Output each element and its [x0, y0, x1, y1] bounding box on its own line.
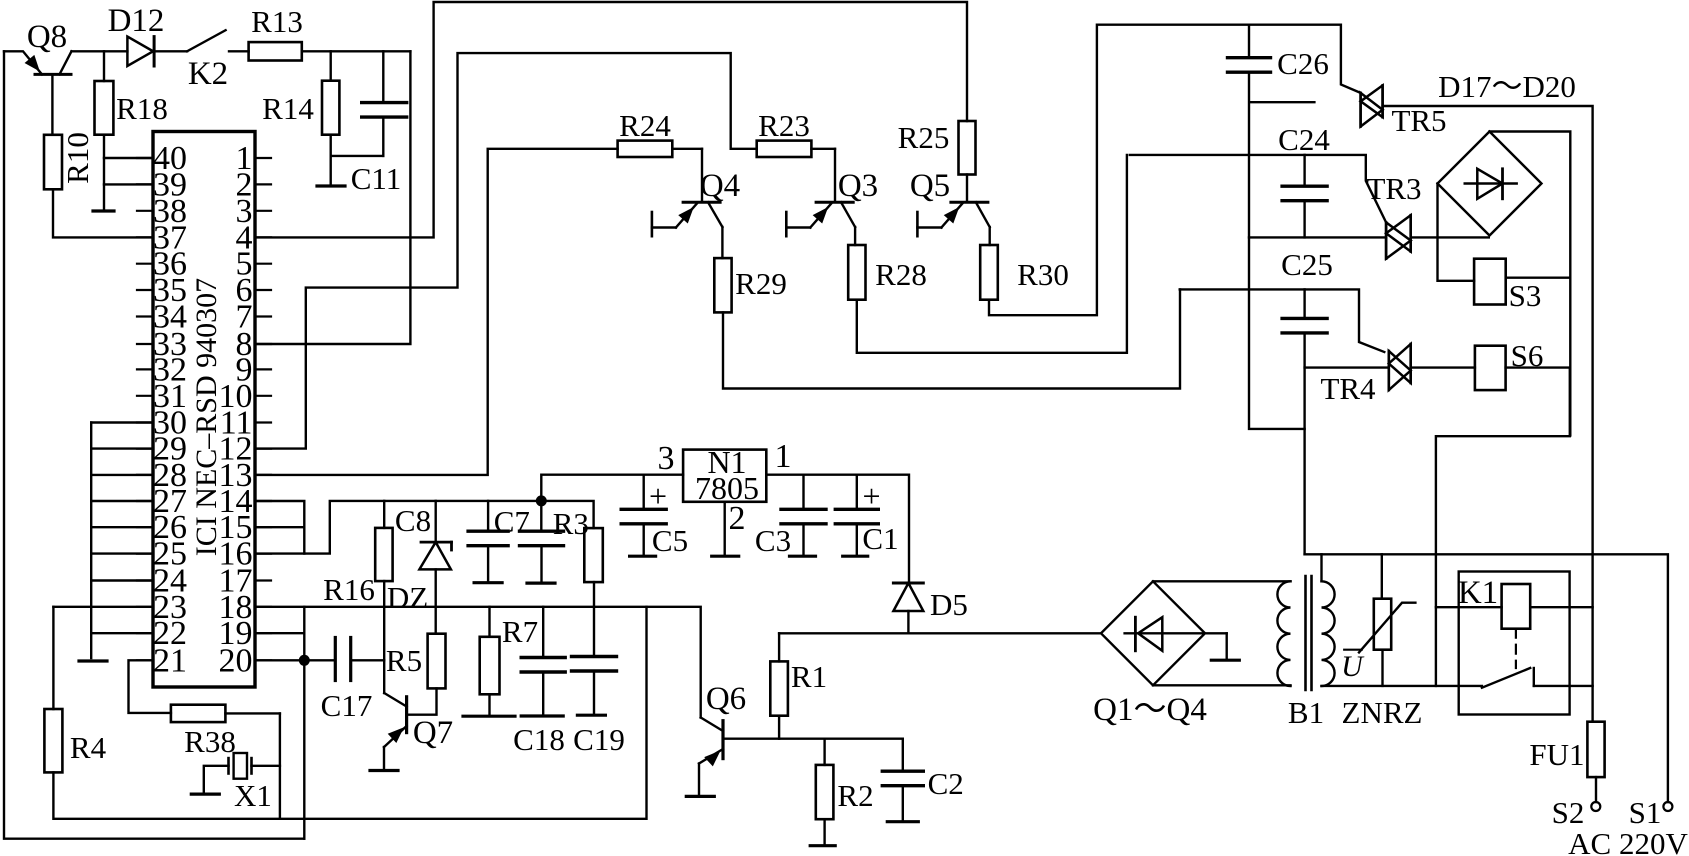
wire R5 to Q7 base: [407, 688, 437, 714]
svg-text:R5: R5: [386, 643, 422, 678]
wire pin 21 to R38: [129, 660, 171, 713]
svg-text:R1: R1: [791, 659, 827, 694]
wire secondary top rail to S1: [1305, 554, 1668, 802]
label D17~D20: [1438, 69, 1576, 104]
resistor R16: [375, 528, 392, 581]
wire Q3 emitter to R28: [854, 227, 856, 245]
svg-text:Q4: Q4: [700, 168, 740, 204]
wire C7a bottom lead: [487, 546, 489, 583]
wire C18 top lead: [542, 607, 544, 658]
wire C19 bottom lead: [593, 671, 595, 715]
resistor R23: [757, 141, 812, 157]
node junction pin 20: [299, 655, 310, 666]
wire C24 row to TR3 gate: [1130, 155, 1386, 223]
svg-text:X1: X1: [234, 778, 272, 813]
label C26: [1277, 46, 1329, 81]
label C5: [652, 523, 688, 558]
ground below C7b: [527, 581, 555, 584]
svg-text:S2: S2: [1552, 795, 1585, 830]
wire Q6 base row: [723, 738, 903, 740]
label Q8: [27, 19, 67, 55]
label pin 3 of N1: [658, 440, 675, 477]
wire C26 top lead: [1248, 25, 1250, 58]
wire K2 to R13: [229, 50, 249, 52]
svg-text:C19: C19: [573, 722, 625, 757]
wire C25 top lead: [1303, 289, 1305, 318]
transistor Q5: [917, 175, 989, 237]
label Q4: [700, 168, 740, 204]
svg-text:D5: D5: [930, 587, 968, 622]
svg-text:R24: R24: [619, 108, 671, 143]
label R14: [262, 91, 314, 126]
wire R16 top lead: [383, 501, 385, 528]
wire pin 13 to R24: [255, 149, 618, 475]
wire pin 23 to R4: [53, 607, 153, 709]
label R16: [323, 572, 375, 607]
ground at Q1~Q4 output: [1211, 633, 1239, 660]
label R28: [875, 257, 927, 292]
capacitor C7b: [520, 531, 564, 546]
svg-text:7805: 7805: [695, 470, 759, 506]
svg-text:Q1～Q4: Q1～Q4: [1093, 692, 1207, 728]
relay K1 coil: [1502, 584, 1531, 629]
resistor R30: [980, 245, 998, 300]
resistor R24: [618, 141, 673, 157]
wire X1 left to ground: [204, 766, 229, 794]
wire C5 top lead: [643, 475, 645, 510]
diode D12: [127, 37, 154, 66]
svg-text:R23: R23: [758, 108, 810, 143]
capacitor C18: [521, 658, 565, 673]
label C11: [351, 161, 402, 196]
svg-text:S1: S1: [1629, 795, 1662, 830]
svg-text:Q5: Q5: [910, 168, 950, 204]
fuse FU1: [1587, 722, 1604, 777]
switch blade of K1: [1482, 668, 1534, 688]
svg-text:Q7: Q7: [413, 715, 453, 751]
svg-text:R4: R4: [70, 730, 107, 765]
zener diode DZ: [419, 542, 451, 569]
wire R1 bottom lead: [778, 716, 780, 739]
bridge rectifier Q1~Q4: [1101, 581, 1227, 685]
wire TR3 anode to bridge: [1411, 236, 1489, 238]
svg-text:B1: B1: [1288, 695, 1324, 730]
wire Q8 base to R10: [51, 74, 53, 134]
svg-text:R13: R13: [251, 4, 303, 39]
wire K1 coil right: [1530, 606, 1592, 608]
label C17: [321, 688, 373, 723]
ground below R18: [93, 209, 114, 212]
capacitor C11: [362, 103, 407, 118]
wire R13 to pin8 corner: [302, 50, 411, 52]
ground below C1: [843, 555, 868, 558]
label C2: [928, 766, 964, 801]
wire K1 contact to FU1 rail: [1534, 685, 1593, 687]
capacitor C19: [572, 657, 617, 672]
capacitor C1: [835, 509, 878, 524]
label R3: [553, 506, 589, 541]
svg-text:R7: R7: [502, 614, 538, 649]
wire Q8 collector to D12: [72, 50, 128, 52]
label TR5: [1391, 103, 1446, 138]
label C7: [494, 504, 530, 539]
svg-text:K2: K2: [188, 56, 228, 92]
varistor ZNRZ top lead: [1381, 554, 1383, 598]
capacitor C3: [781, 509, 826, 524]
svg-text:ICI NEC–RSD 940307: ICI NEC–RSD 940307: [190, 278, 223, 556]
resistor R28: [848, 245, 865, 300]
label Q3: [838, 168, 878, 204]
wire ZNRZ bottom lead: [1381, 650, 1383, 686]
transistor Q6: [699, 718, 723, 766]
label DZ: [387, 580, 428, 615]
wire C5 bottom lead: [643, 524, 645, 556]
ground below C7a: [474, 581, 502, 584]
label R5: [386, 643, 422, 678]
label R7: [502, 614, 538, 649]
svg-text:21: 21: [153, 642, 187, 679]
label C25: [1281, 247, 1333, 282]
svg-text:DZ: DZ: [387, 580, 428, 615]
wire C7b top lead: [540, 501, 542, 531]
wire Q6 emitter to ground: [698, 764, 700, 797]
svg-text:FU1: FU1: [1529, 737, 1584, 772]
ground below C18: [521, 714, 563, 717]
svg-text:C26: C26: [1277, 46, 1329, 81]
wire IC pin 8 net: [255, 51, 410, 344]
transformer B1: [1277, 576, 1334, 690]
label C19: [573, 722, 625, 757]
label R10: [60, 132, 95, 184]
label R30: [1017, 257, 1069, 292]
capacitor C7a: [468, 531, 508, 546]
svg-text:R38: R38: [184, 724, 236, 759]
wire R4 bottom rail to pin18 net: [53, 607, 646, 819]
resistor R7: [480, 637, 500, 695]
wire C3 bottom lead: [802, 524, 804, 556]
wire R14 top lead: [330, 51, 332, 80]
IC U1 body NEC-RSD 940307: [153, 132, 255, 688]
wire pin 16 to mid bus: [255, 501, 594, 554]
label R18: [116, 91, 168, 126]
svg-text:R29: R29: [735, 266, 787, 301]
ground of left bus: [79, 659, 107, 662]
label C18: [513, 722, 565, 757]
svg-text:S3: S3: [1509, 278, 1542, 313]
label pin 1 of N1: [775, 438, 792, 475]
wire C24 top lead: [1303, 155, 1305, 186]
triac TR4: [1389, 344, 1411, 390]
ground below C2: [887, 820, 918, 823]
ground below X1: [191, 792, 219, 795]
wire TR5 anode rail to FU1: [1383, 106, 1593, 722]
svg-text:+: +: [862, 478, 880, 514]
wire C3 top lead: [802, 475, 804, 510]
wire left rail and bottom rail (Q8 emitter net): [4, 51, 304, 838]
wire R23 left lead: [731, 148, 757, 150]
wire R2 bottom lead: [823, 819, 825, 846]
capacitor C2: [882, 771, 923, 786]
wire C24 bottom lead: [1303, 201, 1305, 238]
label R38: [184, 724, 236, 759]
wire R14 bottom to ground: [331, 135, 384, 186]
label C24: [1278, 122, 1330, 157]
wire K1 coil left: [1436, 606, 1502, 608]
crystal X1: [229, 753, 252, 779]
svg-text:C24: C24: [1278, 122, 1330, 157]
wire S3 right lead: [1506, 277, 1571, 279]
wire Q8 emitter lead: [4, 51, 42, 74]
svg-text:C8: C8: [395, 503, 431, 538]
label Q1~Q4: [1093, 692, 1207, 728]
wire R7 bottom lead: [488, 694, 490, 716]
wire Q1-Q4 bridge top to B1 primary: [1153, 580, 1291, 582]
svg-text:C1: C1: [862, 521, 898, 556]
wire C11 bottom lead: [382, 117, 384, 156]
svg-text:Q6: Q6: [706, 681, 746, 717]
ground below R14: [317, 184, 345, 187]
resistor R4: [44, 709, 62, 772]
wire stub right of C26: [1251, 101, 1315, 103]
wire pins 14-15 jumper: [255, 501, 304, 554]
wire pin 4 to top rail to R25: [255, 2, 967, 237]
svg-text:U: U: [1341, 650, 1365, 683]
svg-text:R28: R28: [875, 257, 927, 292]
wire R18 top lead: [103, 51, 105, 81]
svg-text:R25: R25: [898, 120, 950, 155]
wire X1 right lead: [252, 765, 280, 767]
switch K2: [187, 30, 226, 51]
terminal S2: [1591, 802, 1600, 811]
wire Q7 emitter to ground: [383, 747, 385, 771]
svg-text:R16: R16: [323, 572, 375, 607]
ground below C19: [577, 714, 605, 717]
svg-text:R30: R30: [1017, 257, 1069, 292]
resistor R5: [428, 634, 446, 689]
ground below C5: [630, 555, 656, 558]
label Q7: [413, 715, 453, 751]
transistor Q4: [652, 149, 723, 236]
wire C7a top lead: [487, 501, 489, 531]
svg-text:TR4: TR4: [1320, 371, 1376, 406]
label ZNRZ: [1342, 695, 1423, 730]
wire pins 18-19-20 vertical: [303, 607, 305, 839]
wire secondary bottom rail: [1322, 685, 1482, 687]
label K1: [1458, 575, 1498, 611]
wire pin 12 to R23: [255, 53, 731, 449]
switch S3: [1474, 259, 1506, 305]
wire TR3 cathode row: [1249, 236, 1386, 238]
wire C18 bottom lead: [542, 672, 544, 716]
wire N1 pin2 to ground: [724, 502, 726, 556]
svg-text:R2: R2: [837, 778, 873, 813]
label AC 220V: [1568, 826, 1688, 856]
resistor R38: [171, 705, 226, 722]
dashed link K1 coil to contact: [1515, 629, 1517, 668]
svg-text:R10: R10: [60, 132, 95, 184]
label plus C5: [649, 478, 667, 514]
wire B1 secondary top: [1320, 554, 1322, 581]
wire R10 to IC pin 37: [53, 189, 153, 237]
wire C26 bottom / TR3 net: [1249, 72, 1305, 429]
label S3: [1509, 278, 1542, 313]
triac TR5: [1361, 85, 1383, 126]
label R1: [791, 659, 827, 694]
diode D5: [893, 583, 923, 611]
wire C2 top lead: [902, 739, 904, 772]
svg-text:2: 2: [729, 500, 746, 537]
svg-text:K1: K1: [1458, 575, 1498, 611]
svg-text:C3: C3: [755, 523, 791, 558]
label U of ZNRZ: [1341, 650, 1365, 683]
label B1: [1288, 695, 1324, 730]
ground below R7: [463, 715, 515, 718]
wire S6 to bottom rail: [1436, 368, 1570, 686]
wire R29 bottom to C25 row: [723, 289, 1180, 388]
wire R1 top lead: [778, 633, 780, 661]
label S2: [1552, 795, 1585, 830]
label S1: [1629, 795, 1662, 830]
svg-text:1: 1: [775, 438, 792, 475]
capacitor C24: [1282, 186, 1327, 201]
svg-text:C25: C25: [1281, 247, 1333, 282]
wire C19 top lead: [593, 607, 595, 657]
label Q5: [910, 168, 950, 204]
svg-text:Q3: Q3: [838, 168, 878, 204]
svg-text:TR5: TR5: [1391, 103, 1446, 138]
wire R38/X1 net down: [279, 713, 281, 818]
resistor R25: [959, 121, 976, 175]
svg-text:AC 220V: AC 220V: [1568, 826, 1688, 856]
wire Q5 emitter to R30: [989, 227, 991, 245]
label Q6: [706, 681, 746, 717]
wire C25 row to TR4 gate: [1180, 289, 1385, 352]
capacitor C25: [1282, 318, 1327, 333]
varistor ZNRZ: [1359, 599, 1415, 653]
wire pin 18 bus to Q6 collector: [255, 607, 701, 718]
wire junction to N1 pin3: [541, 475, 683, 501]
ground below R2: [810, 844, 835, 847]
wire Q4 emitter to R29: [721, 227, 723, 258]
switch S6: [1475, 346, 1506, 390]
wire FU1 to S2: [1595, 777, 1597, 802]
resistor R18: [95, 81, 114, 135]
bridge rectifier D17~D20: [1438, 132, 1542, 236]
capacitor C5: [621, 509, 666, 524]
ground below Q7: [370, 769, 398, 772]
svg-text:C17: C17: [321, 688, 373, 723]
resistor R10: [44, 135, 62, 190]
wire D5 to node: [907, 611, 909, 633]
svg-text:C18: C18: [513, 722, 565, 757]
label pin 2 of N1: [729, 500, 746, 537]
resistor R1: [770, 661, 788, 715]
svg-text:D12: D12: [108, 3, 165, 39]
terminal S1: [1663, 802, 1672, 811]
wire bridge top to S3 right: [1490, 132, 1571, 436]
wire R7 top lead: [488, 607, 490, 637]
svg-text:C2: C2: [928, 766, 964, 801]
relay K1 frame: [1459, 572, 1570, 715]
label D5: [930, 587, 968, 622]
label C8: [395, 503, 431, 538]
wire R23 to Q3 collector: [811, 148, 835, 150]
wire R28 bottom to C24 row: [857, 155, 1127, 353]
label S6: [1511, 338, 1544, 373]
svg-text:C5: C5: [652, 523, 688, 558]
wire N1 pin1 to D5: [766, 475, 909, 583]
wire Q1-Q4 bridge bottom to B1 primary: [1153, 684, 1291, 686]
label TR3: [1366, 171, 1421, 206]
resistor R14: [322, 81, 339, 135]
wire C11 top lead: [382, 51, 384, 102]
node junction at N1 input tap: [536, 495, 547, 506]
label plus C1: [862, 478, 880, 514]
wire DZ top lead: [435, 501, 437, 542]
wire D12 to K2: [154, 50, 187, 52]
wire R18 bottom / pins 40 39: [104, 135, 153, 211]
wire D5 row to bridge: [779, 632, 1101, 634]
label FU1: [1529, 737, 1584, 772]
label R25: [898, 120, 950, 155]
capacitor C26: [1228, 58, 1271, 72]
wire R24 to Q4 collector: [672, 148, 702, 150]
svg-text:TR3: TR3: [1366, 171, 1421, 206]
wire pin 19: [255, 632, 304, 634]
wire C1 bottom lead: [856, 524, 858, 556]
svg-text:C11: C11: [351, 161, 402, 196]
resistor R29: [714, 258, 731, 312]
wire pin 20 to C17: [255, 659, 335, 661]
svg-text:20: 20: [219, 642, 253, 679]
label R2: [837, 778, 873, 813]
IC pin stubs: [137, 158, 271, 660]
label R24: [619, 108, 671, 143]
svg-text:R14: R14: [262, 91, 314, 126]
label R13: [251, 4, 303, 39]
label ICI NEC-RSD 940307: [190, 278, 223, 556]
label X1: [234, 778, 272, 813]
wire bridge left to S3 left: [1438, 184, 1475, 281]
ground below Q6: [686, 795, 714, 798]
label R29: [735, 266, 787, 301]
label R23: [758, 108, 810, 143]
transistor Q3: [786, 149, 855, 236]
label C3: [755, 523, 791, 558]
ground below pin2: [712, 555, 739, 558]
regulator N1 7805: [683, 444, 766, 506]
resistor R13: [249, 42, 302, 60]
wire C2 bottom lead: [902, 786, 904, 822]
wire R38 right lead: [225, 712, 280, 714]
resistor R3: [584, 528, 603, 582]
triac TR3: [1386, 215, 1411, 259]
svg-text:D17～D20: D17～D20: [1438, 69, 1576, 104]
wire C17 right lead: [351, 659, 385, 661]
svg-text:ZNRZ: ZNRZ: [1342, 695, 1423, 730]
label D12: [108, 3, 165, 39]
svg-text:Q8: Q8: [27, 19, 67, 55]
label R4: [70, 730, 107, 765]
label K2: [188, 56, 228, 92]
capacitor C17: [335, 638, 350, 681]
wire R16 bottom / Q7 collector: [383, 581, 385, 693]
label C1: [862, 521, 898, 556]
wire TR4 anode to S6: [1411, 366, 1475, 368]
svg-text:3: 3: [658, 440, 675, 477]
wire C7b bottom lead: [540, 546, 542, 583]
wire DZ to R5: [435, 569, 437, 633]
